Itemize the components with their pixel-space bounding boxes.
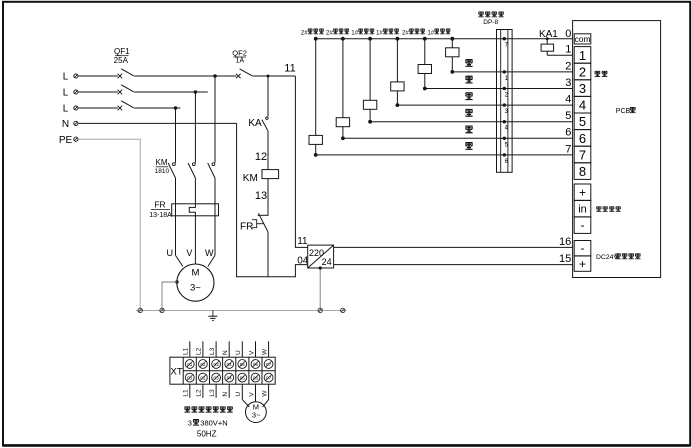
svg-text:L: L xyxy=(63,104,69,115)
svg-text:V: V xyxy=(248,350,255,355)
svg-text:1: 1 xyxy=(565,44,571,56)
svg-text:N: N xyxy=(222,392,229,397)
svg-text:+: + xyxy=(579,257,586,271)
svg-text:U: U xyxy=(235,350,242,355)
svg-text:24: 24 xyxy=(322,257,332,267)
svg-text:04: 04 xyxy=(297,256,309,267)
svg-text:11: 11 xyxy=(297,236,308,247)
svg-text:com: com xyxy=(574,34,590,44)
svg-text:FR: FR xyxy=(154,200,165,210)
svg-text:1: 1 xyxy=(579,48,586,63)
svg-text:DP-8: DP-8 xyxy=(483,19,498,26)
svg-text:W: W xyxy=(261,348,268,355)
svg-text:1A: 1A xyxy=(236,58,245,65)
svg-text:KM: KM xyxy=(243,173,258,184)
svg-text:2#: 2# xyxy=(326,29,333,36)
svg-text:3: 3 xyxy=(188,418,192,427)
svg-text:L2: L2 xyxy=(196,347,203,355)
svg-text:N: N xyxy=(222,350,229,355)
svg-text:L1: L1 xyxy=(183,389,190,397)
svg-text:-: - xyxy=(581,241,585,255)
svg-text:2#: 2# xyxy=(301,29,308,36)
svg-text:3: 3 xyxy=(579,81,586,96)
svg-text:8: 8 xyxy=(579,164,586,179)
svg-text:4: 4 xyxy=(579,98,586,113)
svg-text:11: 11 xyxy=(284,62,295,74)
svg-text:7: 7 xyxy=(565,143,571,155)
svg-text:13-18A: 13-18A xyxy=(149,212,172,219)
svg-text:1#: 1# xyxy=(427,29,434,36)
svg-text:KA: KA xyxy=(248,118,262,129)
svg-text:QF1: QF1 xyxy=(114,47,130,56)
svg-text:3~: 3~ xyxy=(190,283,201,294)
svg-text:V: V xyxy=(186,248,192,258)
svg-text:PE: PE xyxy=(59,135,73,146)
svg-text:FR: FR xyxy=(240,222,253,233)
svg-text:6: 6 xyxy=(565,127,571,139)
svg-text:6: 6 xyxy=(579,131,586,146)
svg-text:L: L xyxy=(63,72,69,83)
svg-text:5: 5 xyxy=(565,110,571,122)
svg-text:0: 0 xyxy=(565,28,571,40)
svg-text:L2: L2 xyxy=(196,389,203,397)
svg-text:DC24V: DC24V xyxy=(596,254,618,261)
svg-text:L3: L3 xyxy=(209,389,216,397)
svg-text:1810: 1810 xyxy=(155,168,170,175)
svg-text:2: 2 xyxy=(565,60,571,72)
svg-text:12: 12 xyxy=(255,151,267,163)
svg-text:U: U xyxy=(167,248,174,258)
svg-text:W: W xyxy=(261,390,268,397)
svg-text:L3: L3 xyxy=(209,347,216,355)
svg-text:XT: XT xyxy=(171,367,183,378)
svg-text:7: 7 xyxy=(579,147,586,162)
svg-text:in: in xyxy=(578,204,587,216)
svg-text:3~: 3~ xyxy=(252,410,261,419)
svg-text:KA1: KA1 xyxy=(539,29,558,40)
svg-text:13: 13 xyxy=(255,190,267,202)
svg-text:N: N xyxy=(62,119,69,130)
svg-text:15: 15 xyxy=(559,253,571,265)
svg-text:2: 2 xyxy=(579,64,586,79)
svg-text:25A: 25A xyxy=(114,56,129,65)
svg-text:-: - xyxy=(581,218,585,232)
svg-text:W: W xyxy=(205,248,214,258)
svg-text:1#: 1# xyxy=(376,29,383,36)
svg-text:16: 16 xyxy=(559,236,571,248)
svg-text:380V+N: 380V+N xyxy=(200,418,227,427)
svg-text:U: U xyxy=(235,392,242,397)
svg-text:1#: 1# xyxy=(351,29,358,36)
svg-text:V: V xyxy=(248,392,255,397)
svg-text:+: + xyxy=(579,186,586,200)
svg-text:3: 3 xyxy=(565,77,571,89)
svg-text:QF2: QF2 xyxy=(232,49,247,58)
svg-text:4: 4 xyxy=(565,94,571,106)
svg-text:L1: L1 xyxy=(183,347,190,355)
svg-text:PCB: PCB xyxy=(616,108,631,115)
svg-text:5: 5 xyxy=(579,114,586,129)
svg-text:KM: KM xyxy=(156,158,168,167)
svg-text:L: L xyxy=(63,88,69,99)
svg-text:M: M xyxy=(191,267,199,278)
svg-text:2#: 2# xyxy=(402,29,409,36)
svg-text:50HZ: 50HZ xyxy=(197,430,217,439)
